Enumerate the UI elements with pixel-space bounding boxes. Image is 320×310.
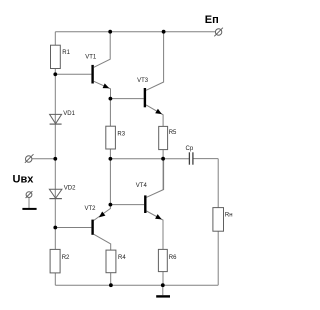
transistor VT1 bbox=[91, 65, 109, 88]
transistor VT4 bbox=[144, 195, 162, 219]
node VT3 collector on top rail bbox=[162, 30, 166, 34]
resistor R6 bbox=[158, 249, 167, 271]
svg-text:VD1: VD1 bbox=[63, 111, 75, 117]
diode VD1 bbox=[50, 114, 62, 124]
resistor R4 bbox=[106, 250, 116, 273]
wire VT1 emitter to node bbox=[94, 81, 111, 98]
svg-text:VT1: VT1 bbox=[85, 54, 97, 60]
svg-text:VT4: VT4 bbox=[136, 183, 148, 189]
svg-text:VT2: VT2 bbox=[85, 206, 97, 212]
svg-text:Uвх: Uвх bbox=[13, 173, 35, 185]
svg-text:Cр: Cр bbox=[186, 146, 194, 152]
wire VT3 collector bbox=[146, 32, 164, 91]
node VD2 / VT2 base bbox=[53, 226, 57, 230]
transistor VT2 bbox=[91, 212, 105, 235]
svg-text:Rн: Rн bbox=[225, 213, 233, 219]
wire VT1 emitter node to R3 and VT2 node bbox=[109, 99, 111, 205]
wire VT2 collector to R4 bbox=[94, 234, 111, 285]
terminal input common bbox=[26, 191, 33, 198]
node R5 bottom / VT4 collector bbox=[161, 157, 165, 161]
wire capacitor to right rail bbox=[193, 158, 218, 160]
wire VT2 emitter from node bbox=[94, 205, 111, 221]
svg-text:Еп: Еп bbox=[205, 14, 219, 26]
wire R5 through mid node to VT4 collector bbox=[162, 150, 164, 190]
node R4 bottom on bottom rail bbox=[109, 283, 113, 287]
terminal Еп bbox=[214, 28, 223, 37]
terminal input bbox=[25, 154, 34, 163]
wire mid horizontal to capacitor bbox=[110, 158, 189, 160]
wire VT1 collector bbox=[94, 32, 110, 68]
ground bottom bbox=[156, 295, 170, 297]
svg-text:R1: R1 bbox=[62, 50, 70, 56]
transistor VT3 bbox=[144, 88, 162, 114]
node R6 bottom / ground on bottom rail bbox=[161, 283, 165, 287]
svg-text:R4: R4 bbox=[118, 255, 126, 261]
node VT1 collector on top rail bbox=[108, 30, 112, 34]
svg-text:R6: R6 bbox=[169, 255, 177, 261]
node VT2 emitter / VT4 base bbox=[109, 203, 113, 207]
wire VT3 emitter to R5 bbox=[146, 105, 163, 127]
svg-text:VD2: VD2 bbox=[64, 185, 76, 191]
resistor R2 bbox=[50, 249, 60, 273]
svg-text:R5: R5 bbox=[169, 130, 177, 136]
ground input bbox=[22, 208, 36, 210]
node input on left rail bbox=[53, 157, 57, 161]
wire input common terminal to ground bbox=[28, 198, 30, 209]
node R1 bottom / VT1 base bbox=[53, 72, 57, 76]
diode VD2 bbox=[49, 189, 62, 198]
resistor R1 bbox=[51, 45, 61, 68]
wire bottom rail bbox=[55, 284, 218, 286]
svg-text:R3: R3 bbox=[117, 131, 125, 137]
resistor R5 bbox=[159, 126, 168, 149]
wire VT3 base bbox=[110, 98, 143, 100]
wire input terminal to rail bbox=[32, 158, 55, 160]
wire left rail bbox=[54, 32, 56, 286]
svg-text:VT3: VT3 bbox=[137, 78, 149, 84]
wire VT1 base bbox=[55, 73, 91, 75]
node R3 bottom / mid line bbox=[109, 157, 113, 161]
wire VT4 base bbox=[110, 204, 144, 206]
node VT1 emitter / VT3 base / R3 bbox=[109, 97, 113, 101]
wire VT4 collector bbox=[147, 159, 164, 198]
capacitor Cр bbox=[189, 152, 193, 164]
svg-text:R2: R2 bbox=[62, 255, 70, 261]
wire top supply rail bbox=[55, 31, 215, 33]
wire VT2 base bbox=[55, 227, 91, 229]
wire right rail bbox=[217, 159, 219, 286]
wire VT4 emitter to R6 bbox=[147, 211, 164, 285]
resistor Rн bbox=[213, 208, 224, 232]
wire bottom node to ground bbox=[162, 285, 164, 295]
resistor R3 bbox=[106, 126, 116, 149]
